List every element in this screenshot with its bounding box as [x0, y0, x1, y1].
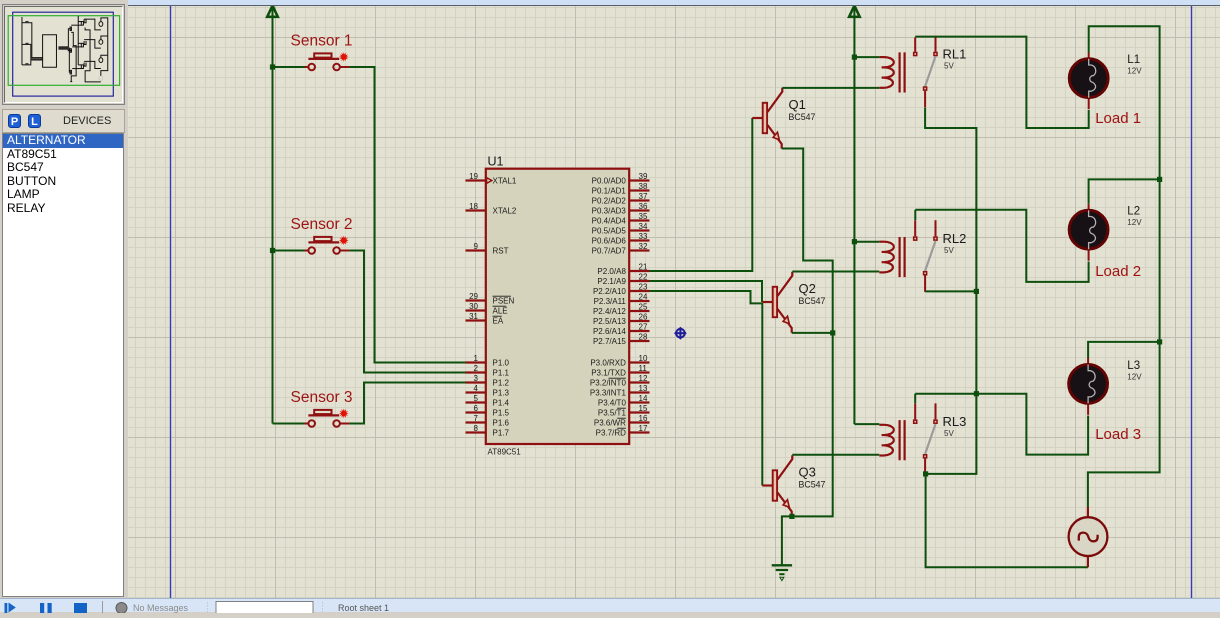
- svg-text:P2.3/A11: P2.3/A11: [594, 297, 627, 306]
- svg-text:34: 34: [639, 222, 648, 231]
- pin 11 P3.1/TXD (right): [591, 364, 649, 377]
- node: animation control status bar: [0, 598, 1220, 612]
- svg-text:P2.2/A10: P2.2/A10: [593, 287, 626, 296]
- devices list: [2, 133, 124, 597]
- pin 9 RST (left): [466, 242, 509, 255]
- pin 5 P1.4 (left): [466, 394, 510, 407]
- overview schematic sketch: [22, 16, 108, 82]
- wire: U1 pin 23 (P2.2) to Q3 base: [650, 291, 763, 486]
- pin 27 P2.6/A14 (right): [593, 323, 650, 336]
- svg-text:XTAL1: XTAL1: [493, 177, 517, 186]
- pin 17 P3.7/RD (right): [596, 424, 650, 437]
- svg-text:Load 1: Load 1: [1095, 110, 1141, 127]
- svg-text:30: 30: [469, 302, 478, 311]
- svg-text:P2.5/A13: P2.5/A13: [593, 317, 626, 326]
- button Sensor 1 (push-button): [304, 53, 349, 70]
- pin 35 P0.4/AD4 (right): [592, 212, 650, 225]
- pin 33 P0.6/AD6 (right): [592, 232, 650, 245]
- svg-text:17: 17: [639, 424, 648, 433]
- svg-text:19: 19: [469, 172, 478, 181]
- junction rail/RL1 coil: [852, 55, 857, 60]
- svg-text:P0.0/AD0: P0.0/AD0: [592, 177, 627, 186]
- svg-text:29: 29: [469, 292, 478, 301]
- wire: rail end to RL3 coil top: [854, 423, 879, 425]
- svg-text:27: 27: [639, 323, 648, 332]
- svg-text:P0.5/AD5: P0.5/AD5: [592, 227, 627, 236]
- wire: rail to Sensor 1 left terminal: [273, 66, 305, 68]
- pin 16 P3.6/WR (right): [594, 414, 650, 427]
- svg-text:U1: U1: [488, 155, 504, 169]
- junction rail/Sensor1: [270, 64, 275, 69]
- wire: right power rail vertical: [853, 8, 855, 424]
- svg-text:37: 37: [639, 192, 648, 201]
- pin 25 P2.4/A12 (right): [593, 303, 650, 316]
- sheet border left edge: [170, 6, 172, 598]
- pin 32 P0.7/AD7 (right): [592, 242, 650, 255]
- mouse crosshair cursor: [674, 327, 687, 340]
- svg-text:24: 24: [639, 293, 648, 302]
- svg-text:P0.1/AD1: P0.1/AD1: [592, 187, 627, 196]
- svg-text:EA: EA: [493, 317, 504, 326]
- wire: lamp L3 top to right bus: [1088, 342, 1160, 358]
- svg-text:12V: 12V: [1127, 218, 1142, 227]
- svg-text:12V: 12V: [1127, 67, 1142, 76]
- svg-text:38: 38: [639, 182, 648, 191]
- svg-text:5: 5: [474, 394, 479, 403]
- svg-text:39: 39: [639, 172, 648, 181]
- svg-text:P3.2/INT0: P3.2/INT0: [590, 379, 627, 388]
- wire: riser to RL2 contact A: [914, 210, 916, 220]
- junction Q2 emitter/bus: [830, 330, 835, 335]
- wire: lamp L1 top along right bus to alternator top: [1088, 26, 1160, 507]
- svg-text:23: 23: [639, 283, 648, 292]
- lamp L2 12V: [1069, 204, 1108, 261]
- wire: Sensor 2 to U1 pin 2 (P1.1): [349, 251, 485, 373]
- svg-text:BC547: BC547: [789, 112, 816, 122]
- svg-text:P1.6: P1.6: [493, 419, 510, 428]
- pin 13 P3.3/INT1 (right): [590, 384, 650, 397]
- svg-text:Q3: Q3: [799, 465, 816, 480]
- relay RL3 coil: [879, 420, 904, 460]
- svg-text:26: 26: [639, 313, 648, 322]
- pin 18 XTAL2 (left): [466, 202, 517, 215]
- relay RL2 coil: [879, 237, 904, 277]
- pause button: [40, 603, 44, 613]
- wire: Q1 collector to RL1 coil bottom: [782, 87, 879, 89]
- svg-text:P1.4: P1.4: [493, 399, 510, 408]
- transistor Q1 BC547: [752, 88, 782, 149]
- message clock icon: [116, 603, 127, 614]
- svg-text:XTAL2: XTAL2: [493, 207, 517, 216]
- pin 30 ALE (left): [466, 302, 508, 315]
- svg-text:Sensor 3: Sensor 3: [291, 389, 353, 406]
- svg-text:25: 25: [639, 303, 648, 312]
- svg-text:P3.3/INT1: P3.3/INT1: [590, 389, 627, 398]
- svg-text:4: 4: [474, 384, 479, 393]
- svg-text:Q2: Q2: [799, 281, 816, 296]
- svg-text:P1.5: P1.5: [493, 409, 510, 418]
- svg-text:5V: 5V: [944, 246, 954, 255]
- svg-text:P3.1/TXD: P3.1/TXD: [591, 369, 626, 378]
- wire: RL1 contact A to lamp L1 bottom: [915, 37, 1088, 128]
- power terminal arrow (left rail): [267, 6, 278, 17]
- svg-text:Sensor 1: Sensor 1: [291, 33, 353, 50]
- pin 39 P0.0/AD0 (right): [592, 172, 650, 185]
- pin 10 P3.0/RXD (right): [590, 354, 649, 367]
- wire: U1 pin 21 (P2.0) to Q1 base: [650, 118, 753, 271]
- overview viewport rectangles: [13, 12, 114, 96]
- svg-text:P3.0/RXD: P3.0/RXD: [590, 359, 626, 368]
- svg-text:18: 18: [469, 202, 478, 211]
- svg-text:Load 3: Load 3: [1095, 426, 1141, 443]
- svg-text:5V: 5V: [944, 429, 954, 438]
- svg-text:7: 7: [474, 414, 479, 423]
- lamp L1 12V: [1069, 52, 1108, 109]
- wire: RL3 common to alternator bottom: [926, 474, 1088, 567]
- relay RL2 switch contacts: [913, 220, 938, 292]
- svg-text:P0.3/AD3: P0.3/AD3: [592, 207, 627, 216]
- svg-text:32: 32: [639, 242, 648, 251]
- pin 21 P2.0/A8 (right): [597, 263, 649, 276]
- junction rail/Sensor2: [270, 248, 275, 253]
- svg-text:L1: L1: [1127, 54, 1140, 66]
- svg-text:P3.6/WR: P3.6/WR: [594, 419, 626, 428]
- sheet border right edge: [1191, 6, 1193, 598]
- svg-text:P1.3: P1.3: [493, 389, 510, 398]
- svg-text:RL3: RL3: [943, 414, 967, 429]
- pin 31 EA (left): [466, 312, 504, 325]
- interactive actuate star of Sensor 2: [339, 236, 349, 246]
- pin 3 P1.2 (left): [466, 374, 510, 387]
- svg-text:P1.1: P1.1: [493, 369, 510, 378]
- wire: Sensor 3 to U1 pin 3 (P1.2): [349, 383, 485, 424]
- transistor Q3 BC547: [762, 455, 792, 516]
- pin 36 P0.3/AD3 (right): [592, 202, 650, 215]
- pin 6 P1.5 (left): [466, 404, 510, 417]
- pin 15 P3.5/T1 (right): [598, 404, 650, 417]
- button Sensor 3 (push-button): [304, 410, 349, 427]
- pin 29 PSEN (left): [466, 292, 515, 305]
- wire: lamp L2 top to right bus: [1089, 179, 1160, 203]
- svg-text:6: 6: [474, 404, 479, 413]
- pin 38 P0.1/AD1 (right): [592, 182, 650, 195]
- svg-text:RST: RST: [493, 247, 509, 256]
- junction rail/RL2 coil: [852, 239, 857, 244]
- svg-text:11: 11: [639, 364, 648, 373]
- ground: [772, 565, 792, 580]
- wire: RL1 common down the contact bus: [925, 108, 976, 474]
- svg-text:P0.6/AD6: P0.6/AD6: [592, 237, 627, 246]
- svg-text:P2.1/A9: P2.1/A9: [597, 277, 626, 286]
- wire: RL3 contact A to lamp L3 bottom: [915, 394, 1088, 455]
- pin 1 P1.0 (left): [466, 354, 510, 367]
- relay RL3 switch contacts: [913, 403, 938, 475]
- devices header: [2, 109, 125, 133]
- junction RL3 common/bus: [923, 471, 928, 476]
- svg-text:10: 10: [639, 354, 648, 363]
- svg-text:AT89C51: AT89C51: [488, 448, 522, 457]
- wire: rail to Sensor 2 left terminal: [273, 250, 305, 252]
- interactive actuate star of Sensor 1: [339, 52, 349, 62]
- svg-text:33: 33: [639, 232, 648, 241]
- wire: rail to RL1 coil top: [854, 56, 879, 58]
- svg-text:P0.2/AD2: P0.2/AD2: [592, 197, 627, 206]
- transistor Q2 BC547: [762, 272, 792, 333]
- wire: rail to RL2 coil top: [854, 241, 879, 243]
- svg-text:35: 35: [639, 212, 648, 221]
- svg-text:16: 16: [639, 414, 648, 423]
- svg-text:Load 2: Load 2: [1095, 263, 1141, 280]
- wire: Q1 emitter bus to ground: [782, 149, 833, 566]
- pin 2 P1.1 (left): [466, 364, 510, 377]
- wire: RL2 contact A to lamp L2 bottom: [915, 210, 1088, 282]
- pin 24 P2.3/A11 (right): [594, 293, 650, 306]
- svg-text:P2.4/A12: P2.4/A12: [593, 307, 626, 316]
- microcontroller U1 AT89C51 body: [486, 169, 629, 444]
- pin 12 P3.2/INT0 (right): [590, 374, 650, 387]
- wire: riser to RL3 contact A: [914, 394, 916, 404]
- pin 26 P2.5/A13 (right): [593, 313, 650, 326]
- pin 14 P3.4/T0 (right): [598, 394, 650, 407]
- junction Q3 emitter/bus: [789, 514, 794, 519]
- relay RL1 coil: [879, 52, 904, 92]
- svg-text:ALE: ALE: [493, 307, 508, 316]
- svg-text:2: 2: [474, 364, 479, 373]
- pin 7 P1.6 (left): [466, 414, 510, 427]
- svg-text:PSEN: PSEN: [493, 297, 515, 306]
- svg-text:28: 28: [639, 333, 648, 342]
- svg-text:P2.0/A8: P2.0/A8: [597, 267, 626, 276]
- wire: Sensor 1 to U1 pin 1 (P1.0): [349, 67, 485, 363]
- pin 37 P0.2/AD2 (right): [592, 192, 650, 205]
- svg-text:36: 36: [639, 202, 648, 211]
- svg-text:P3.7/RD: P3.7/RD: [596, 429, 626, 438]
- svg-text:Q1: Q1: [789, 97, 806, 112]
- stop button: [74, 603, 87, 613]
- svg-text:BC547: BC547: [799, 479, 826, 489]
- button Sensor 2 (push-button): [304, 237, 349, 254]
- pin 23 P2.2/A10 (right): [593, 283, 650, 296]
- pin 34 P0.5/AD5 (right): [592, 222, 650, 235]
- svg-text:Sensor 2: Sensor 2: [291, 216, 353, 233]
- svg-text:12V: 12V: [1127, 372, 1142, 381]
- pin 19 XTAL1 (left): [466, 172, 517, 185]
- relay RL1 switch contacts: [913, 37, 938, 107]
- junction L3 top/right bus: [1157, 339, 1162, 344]
- svg-text:P3.5/T1: P3.5/T1: [598, 409, 627, 418]
- wire: U1 pin 22 (P2.1) to Q2 base: [650, 281, 763, 302]
- play button: [5, 603, 8, 613]
- pin 4 P1.3 (left): [466, 384, 510, 397]
- junction RL3 contactA wire/bus: [974, 391, 979, 396]
- pin 22 P2.1/A9 (right): [597, 273, 649, 286]
- svg-text:P1.0: P1.0: [493, 359, 510, 368]
- wire: Q2 collector to RL2 coil bottom: [792, 271, 879, 273]
- svg-text:21: 21: [639, 263, 648, 272]
- svg-text:BC547: BC547: [799, 296, 826, 306]
- svg-text:RL1: RL1: [943, 47, 967, 62]
- svg-text:RL2: RL2: [943, 231, 967, 246]
- wire: Q3 collector to RL3 coil bottom: [792, 454, 879, 456]
- wire: RL2 common to contact bus: [925, 290, 976, 292]
- svg-text:P3.4/T0: P3.4/T0: [598, 399, 627, 408]
- svg-text:14: 14: [639, 394, 648, 403]
- pin 8 P1.7 (left): [466, 424, 510, 437]
- svg-text:5V: 5V: [944, 62, 954, 71]
- svg-text:P1.7: P1.7: [493, 429, 510, 438]
- wire: Q2 emitter to bus: [792, 332, 833, 334]
- svg-text:L3: L3: [1127, 360, 1140, 372]
- svg-text:12: 12: [639, 374, 648, 383]
- overview window: [2, 4, 125, 105]
- svg-text:22: 22: [639, 273, 648, 282]
- svg-text:15: 15: [639, 404, 648, 413]
- lamp L3 12V: [1069, 358, 1108, 415]
- svg-text:9: 9: [474, 242, 479, 251]
- svg-text:P2.6/A14: P2.6/A14: [593, 327, 626, 336]
- svg-text:P0.7/AD7: P0.7/AD7: [592, 247, 627, 256]
- power terminal arrow (right rail): [849, 6, 860, 17]
- svg-text:1: 1: [474, 354, 479, 363]
- svg-text:L2: L2: [1127, 206, 1140, 218]
- pin XTAL1 clock chevron: [487, 178, 492, 184]
- junction RL2 common/bus: [974, 289, 979, 294]
- wire: rail to Sensor 3 left terminal: [273, 423, 305, 425]
- alternator AC source: [1069, 507, 1108, 567]
- svg-text:P2.7/A15: P2.7/A15: [593, 337, 626, 346]
- svg-text:13: 13: [639, 384, 648, 393]
- svg-text:P0.4/AD4: P0.4/AD4: [592, 217, 627, 226]
- svg-text:31: 31: [469, 312, 478, 321]
- junction L2 top/right bus: [1157, 177, 1162, 182]
- svg-text:8: 8: [474, 424, 479, 433]
- svg-text:P1.2: P1.2: [493, 379, 510, 388]
- wire: left power rail vertical: [272, 8, 274, 424]
- interactive actuate star of Sensor 3: [339, 409, 349, 419]
- svg-text:3: 3: [474, 374, 479, 383]
- pin 28 P2.7/A15 (right): [593, 333, 650, 346]
